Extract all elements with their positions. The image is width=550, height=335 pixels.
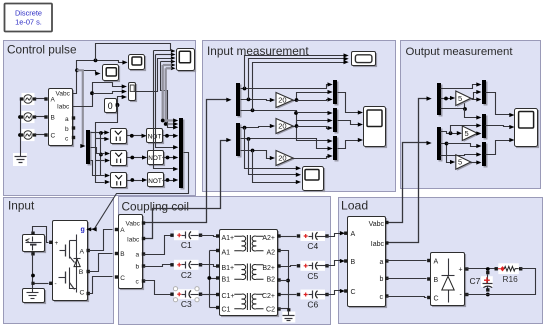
port load Vabc xyxy=(385,221,388,224)
wire Vabc to main scope xyxy=(96,44,171,61)
wire B2 return xyxy=(279,280,289,282)
port cp a xyxy=(142,252,145,255)
svg-text:B: B xyxy=(51,115,55,122)
wire b to C2 xyxy=(144,265,171,267)
junction bus2 xyxy=(164,122,168,126)
junction GE3 xyxy=(130,178,134,182)
AC source C xyxy=(22,129,35,141)
junction Vabc bigscope xyxy=(94,59,98,63)
mux gate signals xyxy=(181,120,185,190)
wire od1 o3 xyxy=(441,100,478,109)
svg-text:C4: C4 xyxy=(307,241,318,251)
port bridge C xyxy=(87,292,90,295)
universal bridge IGBT xyxy=(54,222,89,302)
svg-text:A: A xyxy=(51,97,56,104)
port U1 c xyxy=(72,136,75,139)
svg-text:C6: C6 xyxy=(307,300,318,310)
wire d2 o1 xyxy=(241,127,271,128)
mux out B xyxy=(484,116,488,140)
rectifier diode symbol xyxy=(448,259,450,276)
junction rail C xyxy=(18,133,22,137)
white mux block xyxy=(130,84,137,102)
junction od2o2 xyxy=(445,142,449,146)
gain 20 phase C xyxy=(277,152,294,167)
wire Iabc to white mux xyxy=(93,92,123,94)
junction d2o2 xyxy=(247,137,251,141)
bridge internal rail xyxy=(76,235,78,293)
wire d1 o2 xyxy=(241,100,271,101)
wire C2 to B1+ xyxy=(201,265,217,267)
logic NOT1 xyxy=(148,130,164,144)
capacitor C6 xyxy=(301,290,326,300)
powergui block Discrete 1e-07 s. xyxy=(5,4,53,32)
port stub xyxy=(31,282,34,285)
ground block input xyxy=(24,290,46,304)
wire g20b out xyxy=(293,121,329,127)
transformer winding C xyxy=(234,294,245,309)
transformer winding B xyxy=(234,265,245,280)
svg-text:Input: Input xyxy=(8,199,35,213)
junction d1o2 xyxy=(247,98,251,102)
transformer ports left xyxy=(216,234,219,237)
wire a to C1 xyxy=(144,236,171,255)
wire d1 o3 up display xyxy=(253,63,345,111)
port bridge + xyxy=(49,241,52,244)
logic NOT3 xyxy=(149,174,165,188)
junction d2o3 xyxy=(251,149,255,153)
svg-text:a: a xyxy=(380,259,384,266)
svg-text:5: 5 xyxy=(465,129,469,138)
wire Iabc coupling up xyxy=(145,141,228,239)
wire neutral left xyxy=(209,251,211,308)
svg-text:C2: C2 xyxy=(266,306,275,313)
mux VC xyxy=(335,138,339,162)
wire GE2 out xyxy=(127,157,143,159)
port load A xyxy=(344,232,347,235)
bus riser 4 xyxy=(161,62,175,128)
port C7 top xyxy=(486,271,489,274)
port load C xyxy=(344,289,347,292)
wire mux out to g xyxy=(91,153,189,230)
port load c xyxy=(385,294,388,297)
relational operator GE1 xyxy=(112,130,128,145)
wire d2 o2 down xyxy=(249,139,297,175)
constant block 0 xyxy=(106,100,118,114)
wire Vabc coupling up xyxy=(145,100,228,223)
svg-text:R16: R16 xyxy=(503,274,519,284)
svg-text:A: A xyxy=(120,227,125,234)
junction NOT3 xyxy=(166,178,170,182)
mux VA xyxy=(335,82,339,106)
port load a xyxy=(385,259,388,262)
region Input measurement xyxy=(203,41,396,192)
wire d2 o3 xyxy=(241,151,271,159)
svg-text:Iabc: Iabc xyxy=(57,104,70,111)
wire g20b branch xyxy=(297,127,329,129)
three-phase transformer block xyxy=(221,231,279,317)
wire C5 to load B xyxy=(327,261,341,266)
svg-text:B: B xyxy=(434,277,439,284)
svg-text:0: 0 xyxy=(108,101,113,111)
svg-text:20: 20 xyxy=(278,96,286,105)
svg-text:C: C xyxy=(51,133,56,140)
three-phase VI measurement U1 xyxy=(50,90,74,147)
junction C7 top xyxy=(486,267,490,271)
wire Iabc up xyxy=(73,83,123,107)
junction const0 xyxy=(116,103,120,107)
port rect A xyxy=(427,259,430,262)
wire OM2 to scope xyxy=(486,126,511,127)
svg-text:A: A xyxy=(434,258,439,265)
port rect B xyxy=(427,277,430,280)
junction d2o1 xyxy=(243,126,247,130)
svg-text:A2+: A2+ xyxy=(262,235,275,242)
port rect - xyxy=(465,293,468,296)
wire rect + to R16 xyxy=(467,268,495,270)
svg-text:A: A xyxy=(351,231,356,238)
junction od1o2 xyxy=(444,97,448,101)
scope A xyxy=(130,56,146,71)
junction Iabc white mux xyxy=(90,91,94,95)
wire d1 o1 up display xyxy=(245,56,345,89)
svg-text:+: + xyxy=(459,267,463,274)
junction od1o3 xyxy=(463,107,467,111)
wire d1 o1 xyxy=(241,85,329,89)
wire const0 out xyxy=(118,97,123,105)
capacitor C5 xyxy=(301,261,326,271)
wire source rail xyxy=(20,99,22,153)
bus riser 1 xyxy=(154,51,175,169)
junction g20b xyxy=(295,124,299,128)
wire const0 down xyxy=(96,105,118,183)
wire OM1 to scope xyxy=(486,93,511,115)
ground coupling xyxy=(282,312,295,323)
capacitor C4 xyxy=(301,231,326,241)
svg-text:5: 5 xyxy=(458,158,462,167)
junction neutral xyxy=(207,276,211,280)
ground control xyxy=(13,153,27,166)
svg-text:B2: B2 xyxy=(266,277,275,284)
wire od2 o1 xyxy=(441,132,458,134)
port cp A xyxy=(115,228,118,231)
region Output measurement xyxy=(401,41,541,189)
junction GE1 xyxy=(130,134,134,138)
wire C2+ to C6 xyxy=(281,294,297,296)
wire B1 stub xyxy=(210,278,217,280)
relational operator GE3 xyxy=(112,174,128,189)
scope output VI xyxy=(516,110,539,148)
wire source A to meter xyxy=(36,98,46,100)
junction d1o1 xyxy=(243,87,247,91)
port meter A xyxy=(44,97,47,100)
demux control xyxy=(88,132,92,166)
scope input bottom xyxy=(304,168,325,192)
port load B xyxy=(344,259,347,262)
port meter C xyxy=(44,133,47,136)
svg-text:1e-07 s.: 1e-07 s. xyxy=(15,18,42,27)
svg-text:b: b xyxy=(380,276,384,283)
bus riser gray 1 xyxy=(163,65,174,121)
svg-text:g: g xyxy=(81,227,85,234)
wire NOT1 out xyxy=(163,135,175,137)
svg-text:C: C xyxy=(434,295,439,302)
wire C1r stub xyxy=(210,307,217,309)
svg-text:Vabc: Vabc xyxy=(56,91,71,98)
wire d1 o3 xyxy=(241,111,329,141)
demux voltage input xyxy=(238,85,242,118)
bus riser 2 xyxy=(156,55,175,148)
svg-text:5: 5 xyxy=(458,94,462,103)
junction rail B xyxy=(18,115,22,119)
wire load c to rect C xyxy=(387,297,427,298)
junction ground bus xyxy=(286,279,290,283)
junction NOT2 xyxy=(166,156,170,160)
port load Iabc xyxy=(385,241,388,244)
mux out C xyxy=(484,144,488,168)
svg-text:B: B xyxy=(79,269,84,276)
svg-text:B: B xyxy=(120,251,124,258)
svg-text:C2+: C2+ xyxy=(262,293,275,300)
wire od2 o2b xyxy=(447,144,478,147)
svg-text:C1: C1 xyxy=(181,240,192,250)
wire Vabc load up xyxy=(389,143,428,223)
demux current output xyxy=(439,129,443,162)
wire NOT2 out xyxy=(163,157,175,159)
wire source B to meter xyxy=(36,116,46,118)
wire od2 o1b xyxy=(451,126,478,134)
wire bridge A out xyxy=(89,230,113,251)
port U1 b xyxy=(72,126,75,129)
mux out A xyxy=(484,82,488,106)
wire B2+ to C5 xyxy=(281,266,297,267)
wire od2 o2 xyxy=(441,144,451,163)
port R16 left xyxy=(495,267,498,270)
svg-text:NOT: NOT xyxy=(148,155,162,162)
resistor R16 xyxy=(498,263,519,274)
port cp Iabc xyxy=(142,237,145,240)
svg-text:Control pulse: Control pulse xyxy=(7,43,77,57)
gain 5 phase C xyxy=(457,156,472,171)
port cp Vabc xyxy=(142,221,145,224)
svg-text:Load: Load xyxy=(341,199,368,213)
junction d1o3 b xyxy=(294,111,298,115)
region Coupling coil xyxy=(119,197,331,325)
wire g5c out xyxy=(471,162,478,164)
demux current input xyxy=(238,125,242,158)
wire od1 o3 to M2 xyxy=(465,109,478,118)
scope B xyxy=(104,66,120,82)
svg-text:20: 20 xyxy=(278,122,286,131)
region Control pulse xyxy=(4,41,196,196)
capacitor C3 xyxy=(174,289,199,299)
port cp B xyxy=(115,252,118,255)
wire od2 o3 xyxy=(441,155,478,156)
demux voltage output xyxy=(439,85,443,117)
wire GE3 out xyxy=(127,180,143,182)
svg-text:C: C xyxy=(120,275,125,282)
wire demux o3 xyxy=(91,161,101,176)
AC source A xyxy=(22,93,35,105)
port rect + xyxy=(465,267,468,270)
svg-text:B1+: B1+ xyxy=(222,265,235,272)
svg-text:B1: B1 xyxy=(222,277,231,284)
port U1 a xyxy=(72,116,75,119)
wire od1 o1 xyxy=(441,85,478,89)
wire bottom return xyxy=(467,294,488,296)
wire d2 o2 xyxy=(241,139,329,149)
wire chain to GE2 xyxy=(101,154,105,155)
port rect C xyxy=(427,296,430,299)
svg-text:Iabc: Iabc xyxy=(371,241,385,248)
svg-text:A2: A2 xyxy=(266,249,275,256)
region Load xyxy=(339,198,543,324)
wire M3 to scope xyxy=(338,141,359,149)
wire to bridge - xyxy=(33,283,49,285)
svg-text:20: 20 xyxy=(278,154,286,163)
junction C7 bottom xyxy=(486,293,490,297)
diode rectifier block xyxy=(432,254,466,307)
port cp b xyxy=(142,264,145,267)
wire battery minus down xyxy=(32,255,34,289)
wire load b to rect B xyxy=(387,278,427,280)
capacitor C1 xyxy=(174,230,199,240)
port bridge A xyxy=(87,249,90,252)
svg-text:-: - xyxy=(55,281,57,288)
wire NOT3 out xyxy=(163,180,175,182)
wire c to C3 xyxy=(144,281,171,295)
svg-text:B2+: B2+ xyxy=(262,265,275,272)
junction od2o1 xyxy=(449,131,453,135)
bridge IGBT upper xyxy=(69,241,71,259)
wire C2 return xyxy=(279,308,289,310)
wire d1 o3 to M2 xyxy=(297,112,329,114)
port battery - xyxy=(31,252,34,255)
port C7 bottom xyxy=(486,288,489,291)
region Input xyxy=(4,198,114,324)
bridge diode xyxy=(74,258,81,260)
wire g20c out xyxy=(293,157,329,159)
junction demux o1 xyxy=(99,131,103,135)
svg-text:A: A xyxy=(80,249,85,256)
junction g20a xyxy=(295,98,299,102)
big scope inputs xyxy=(171,49,176,53)
wire phase chain xyxy=(101,133,105,176)
AC source B xyxy=(22,111,35,123)
port load b xyxy=(385,277,388,280)
svg-text:Vabc: Vabc xyxy=(126,221,141,228)
wire demux o1 xyxy=(91,132,105,134)
wire battery to bridge + xyxy=(33,227,49,243)
wire demux o2 xyxy=(91,148,101,154)
display block input xyxy=(353,53,377,67)
svg-text:C: C xyxy=(351,289,356,296)
wire bridge C out xyxy=(89,277,113,294)
DC source battery xyxy=(24,236,46,253)
svg-text:C3: C3 xyxy=(181,299,192,309)
svg-text:A1+: A1+ xyxy=(222,235,235,242)
wire source C to meter xyxy=(36,134,46,136)
svg-text:b: b xyxy=(136,264,140,271)
svg-text:B: B xyxy=(351,259,356,266)
logic NOT2 xyxy=(149,152,165,166)
bus riser 3 from white mux xyxy=(135,59,172,92)
wire od1 o2 xyxy=(441,98,451,100)
wire GE1 out xyxy=(127,135,143,137)
wire g20a branch xyxy=(297,100,329,101)
port cp C xyxy=(115,275,118,278)
svg-text:C1+: C1+ xyxy=(222,293,235,300)
svg-text:Coupling coil: Coupling coil xyxy=(122,200,190,214)
svg-text:a: a xyxy=(65,116,69,123)
svg-text:C5: C5 xyxy=(307,271,318,281)
wire to scope B xyxy=(77,71,97,74)
wire g5a out xyxy=(471,93,478,99)
svg-text:Output measurement: Output measurement xyxy=(406,46,514,58)
capacitor C2 xyxy=(174,260,199,270)
wire A1 stub xyxy=(210,250,217,252)
bus riser gray 2 xyxy=(166,68,174,124)
svg-text:+: + xyxy=(55,240,59,247)
wire Vabc up xyxy=(73,61,124,94)
svg-text:C: C xyxy=(80,290,85,297)
mux VB xyxy=(335,110,339,134)
svg-text:b: b xyxy=(65,126,69,133)
svg-text:a: a xyxy=(136,252,140,259)
junction Vabc scopeB xyxy=(75,68,79,72)
wire load a to rect A xyxy=(387,260,427,262)
svg-text:NOT: NOT xyxy=(148,133,162,140)
svg-text:Iabc: Iabc xyxy=(127,237,140,244)
gain 20 phase B xyxy=(277,120,294,135)
three-phase VI measurement load xyxy=(349,218,387,308)
wire M2 to scope xyxy=(338,121,359,125)
junction NOT1 xyxy=(165,134,169,138)
bridge IGBT lower xyxy=(69,268,71,286)
wire Iabc load up xyxy=(389,99,428,243)
scope main xyxy=(178,50,196,72)
wire d1 o2 up display xyxy=(249,59,345,100)
junction phase chain xyxy=(99,153,103,157)
wire OM3 to scope xyxy=(486,141,511,155)
svg-text:Vabc: Vabc xyxy=(369,221,385,228)
svg-text:C2: C2 xyxy=(181,270,192,280)
wire g20a out xyxy=(293,93,329,101)
wire cmp2 b xyxy=(96,160,105,162)
svg-text:Discrete: Discrete xyxy=(15,9,42,18)
relational operator GE2 xyxy=(112,152,128,167)
transformer winding A xyxy=(234,236,245,251)
junction d1o3 xyxy=(251,108,255,112)
wire C6 to load C xyxy=(327,291,341,295)
port battery + xyxy=(31,232,34,235)
wire M1 to scope xyxy=(338,93,359,113)
gain 5 phase A xyxy=(457,92,472,107)
port cp c xyxy=(142,279,145,282)
port const0 xyxy=(116,103,119,106)
transformer ports right xyxy=(277,234,280,237)
svg-text:c: c xyxy=(380,294,384,301)
wire C1 to A1+ xyxy=(201,236,217,237)
wire C4 to load A xyxy=(327,234,341,237)
junction battery minus xyxy=(31,274,35,278)
svg-text:NOT: NOT xyxy=(148,178,162,185)
wire R16 to return xyxy=(488,269,536,295)
port bridge B xyxy=(87,270,90,273)
junction bus1 xyxy=(161,119,165,123)
wire C3 to C1+ xyxy=(201,294,217,296)
wire d2 o1 down xyxy=(245,128,297,169)
gain 5 phase B xyxy=(464,127,479,141)
